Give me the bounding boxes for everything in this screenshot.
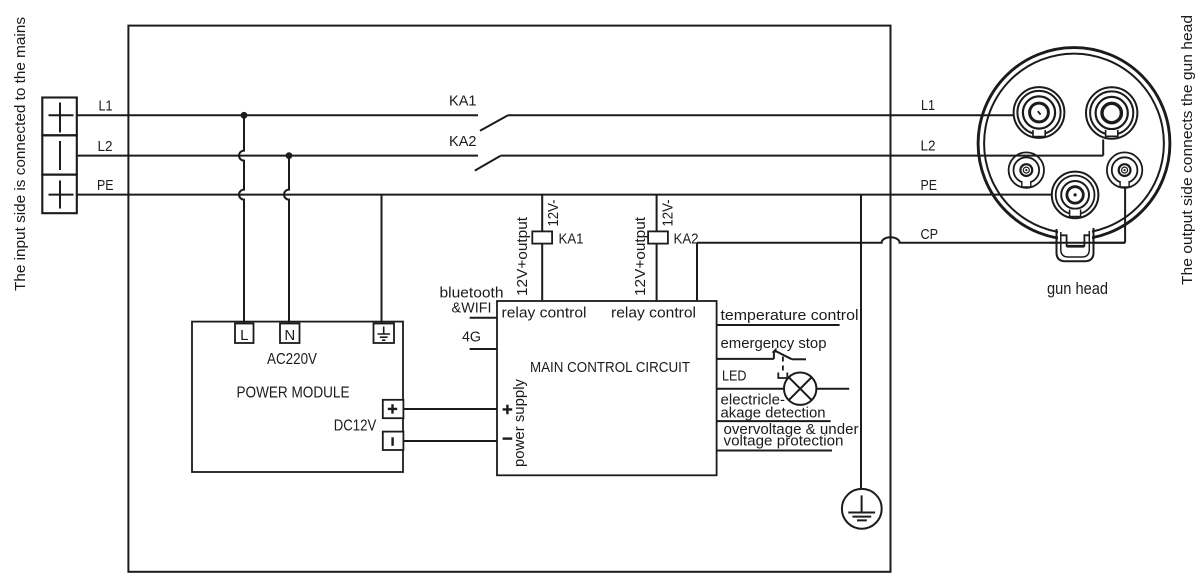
svg-text:L1: L1 [99,98,113,115]
wire L2 left segment [77,155,478,157]
svg-text:gun head: gun head [1047,280,1108,298]
main control circuit box [497,301,717,475]
svg-text:&WIFI: &WIFI [452,300,492,317]
svg-text:KA1: KA1 [559,231,584,248]
contact PE (bottom-center) rings [1052,172,1099,219]
svg-text:KA1: KA1 [449,93,477,110]
wire CP horizontal with hop over border [697,237,1125,242]
wire PE full [77,194,1052,196]
svg-text:temperature control: temperature control [721,307,859,324]
wire leakage detection [717,420,831,422]
svg-text:4G: 4G [462,329,481,346]
gun head bottom tab [1057,228,1094,261]
wire emergency stop left [717,358,774,360]
wire 12V plus [403,408,497,410]
wire overvoltage protection [717,450,832,452]
svg-text:KA2: KA2 [674,231,699,248]
wire 12V minus [403,440,497,442]
svg-text:power supply: power supply [511,379,528,467]
svg-text:MAIN CONTROL CIRCUIT: MAIN CONTROL CIRCUIT [530,359,690,376]
junction dot L1 [241,112,248,119]
svg-text:relay control: relay control [611,305,696,322]
relay coil KA2 [648,231,668,243]
svg-text:L1: L1 [921,97,935,114]
contact CC (mid-left) rings [1009,152,1044,187]
terminal - box [383,432,404,450]
emergency stop riser and arrow [773,351,775,359]
svg-text:emergency stop: emergency stop [721,335,827,352]
wire N down to power module (hop over PE) [284,156,289,324]
terminal block box 1 [42,98,77,136]
wire LED left [717,388,784,390]
svg-text:L: L [240,327,248,344]
svg-text:PE: PE [921,177,938,194]
svg-text:CP: CP [921,226,939,243]
svg-text:KA2: KA2 [449,133,477,150]
svg-text:The output side connects the g: The output side connects the gun head [1179,15,1196,285]
junction dot L2 [286,152,293,159]
wire LED right [816,388,849,390]
svg-text:LED: LED [722,368,747,385]
enclosure border [128,26,890,572]
earth ground symbol circle [842,489,882,529]
earth ground symbol bars [848,495,875,520]
svg-text:12V-: 12V- [545,199,562,226]
wire temperature control [717,324,840,326]
switch KA1 blade [480,115,508,131]
svg-text:12V-: 12V- [660,199,677,226]
contact L1 (top-left) rings [1014,87,1065,138]
terminal + box [383,400,404,418]
svg-text:AC220V: AC220V [267,351,318,368]
terminal - sign [391,437,393,446]
wire L2 right segment [501,155,1103,157]
wire CP across tab [1050,242,1125,244]
terminal L box [235,324,254,344]
wire emergency stop right [792,358,806,360]
contact CP (mid-right) rings [1107,152,1142,187]
bar symbol box2 [59,141,61,170]
svg-text:PE: PE [97,177,114,194]
svg-text:L2: L2 [98,138,113,155]
terminal block box 2 [42,135,77,174]
svg-text:12V+output: 12V+output [514,216,531,296]
wire L1 right segment [508,114,1014,116]
contact L2 (top-right) rings [1086,87,1137,138]
plus symbol box1 [49,103,74,133]
relay coil KA1 [532,231,552,243]
lamp symbol [784,373,816,405]
emergency stop blade [775,351,793,360]
svg-text:DC12V: DC12V [334,418,377,435]
wire CP riser to gun contact [1124,187,1126,243]
svg-text:voltage protection: voltage protection [724,433,844,450]
emergency stop linkage dashed [782,357,784,373]
emergency stop actuator [778,373,787,379]
terminal block box 3 [42,175,77,214]
wire L1 left segment [77,114,478,116]
power module box [192,322,403,472]
gun head inner circle [984,54,1164,234]
svg-text:POWER MODULE: POWER MODULE [237,385,350,402]
wire L down to power module (hops over L2 and PE) [239,115,244,323]
wire KA2 coil line [656,195,658,301]
wire 4G stub [470,348,497,350]
wire L2 riser to gun contact [1102,140,1104,156]
plus symbol box3 [49,181,74,209]
svg-text:12V+output: 12V+output [632,216,649,296]
wire KA1 coil line [541,195,543,301]
plus sign power supply [503,405,513,415]
wire CP riser from control box [696,243,698,301]
wire bluetooth stub [470,317,497,319]
terminal + sign [388,404,397,413]
svg-text:L2: L2 [921,138,936,155]
wire PE down to power module ground terminal [381,195,383,324]
gun head tab notch [1061,234,1090,246]
svg-text:relay control: relay control [502,305,587,322]
switch KA2 blade [475,156,501,171]
terminal N box [280,324,300,344]
svg-text:akage detection: akage detection [721,405,826,422]
svg-text:N: N [284,327,295,344]
terminal ground box [374,324,395,344]
terminal ground symbol [378,327,391,341]
svg-text:The input side is connected to: The input side is connected to the mains [12,17,29,291]
gun head tab mask [1058,227,1092,263]
gun head outer circle [978,48,1170,240]
minus sign power supply [503,437,513,439]
wire PE to earth [860,195,862,489]
